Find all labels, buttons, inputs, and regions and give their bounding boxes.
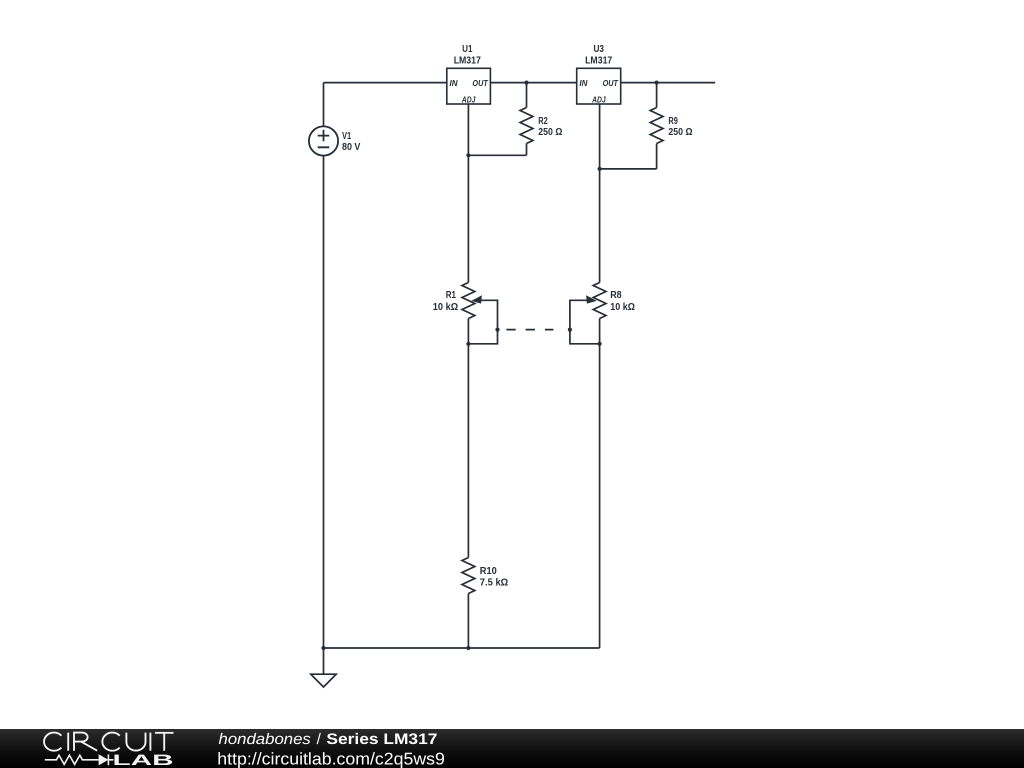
wire R10 bottom lead	[467, 594, 469, 649]
svg-text:IN: IN	[450, 78, 459, 88]
svg-text:IN: IN	[579, 78, 588, 88]
svg-text:R9: R9	[668, 116, 678, 127]
svg-text:250 Ω: 250 Ω	[668, 127, 692, 138]
ground	[311, 674, 336, 687]
svg-text:R10: R10	[480, 566, 498, 577]
svg-text:10 kΩ: 10 kΩ	[433, 302, 459, 313]
wire dashed gang link R1-R8	[506, 329, 553, 331]
footer title	[219, 731, 438, 748]
logo diode wire	[108, 754, 113, 765]
svg-text:hondabones: hondabones	[219, 731, 312, 748]
potentiometer R8	[570, 283, 606, 344]
svg-text:OUT: OUT	[603, 78, 619, 88]
wire R1 bottom to R10	[467, 319, 469, 558]
wire U1 OUT to U3 IN	[490, 82, 576, 84]
node R1 wiper link	[495, 328, 499, 332]
svg-text:LM317: LM317	[585, 55, 613, 66]
wire top from V1 to U1 IN	[324, 82, 447, 84]
wire U3 OUT to right end	[621, 82, 716, 84]
svg-text:250 Ω: 250 Ω	[538, 127, 562, 138]
logo diode	[99, 754, 109, 765]
svg-text:ADJ: ADJ	[591, 94, 606, 104]
op-amp U3 box	[577, 68, 621, 104]
svg-text:LM317: LM317	[454, 55, 482, 66]
footer bar	[0, 729, 1024, 768]
svg-text:http://circuitlab.com/c2q5ws9: http://circuitlab.com/c2q5ws9	[217, 749, 445, 768]
wire bottom ground rail	[324, 647, 600, 649]
potentiometer R1	[462, 283, 498, 344]
svg-text:U3: U3	[593, 44, 604, 55]
wire R2 bottom to ADJ node	[468, 154, 526, 156]
logo letter R	[74, 733, 97, 751]
node R10 / ground rail	[466, 646, 470, 650]
svg-text:U1: U1	[462, 44, 473, 55]
node R8 bottom	[598, 342, 602, 346]
logo letter C2	[102, 733, 119, 751]
logo letter I	[67, 733, 69, 751]
resistor R10	[462, 558, 475, 594]
wire R9 bottom to ADJ node	[600, 168, 657, 170]
svg-text:R8: R8	[610, 290, 622, 301]
logo letter I2	[149, 733, 151, 751]
svg-text:R2: R2	[538, 116, 548, 127]
resistor R2	[520, 83, 533, 156]
resistor R9	[650, 83, 663, 169]
svg-text:10 kΩ: 10 kΩ	[610, 302, 635, 313]
svg-text:LAB: LAB	[113, 752, 174, 768]
wire U1 ADJ down to R1	[467, 104, 469, 283]
node R8 wiper link	[568, 328, 572, 332]
svg-text:ADJ: ADJ	[461, 94, 476, 104]
logo letter T	[155, 733, 174, 751]
wire R8 bottom down	[599, 319, 601, 649]
wire V1 bottom lead	[323, 156, 325, 675]
svg-text:R1: R1	[446, 290, 457, 301]
node V1 / ground rail	[321, 646, 325, 650]
voltage source V1	[309, 126, 338, 155]
node U1.OUT / R2	[524, 81, 528, 85]
node U3.ADJ / R9	[598, 167, 602, 171]
svg-text:V1: V1	[342, 131, 352, 142]
node U1.ADJ / R2	[466, 153, 470, 157]
svg-text:/: /	[317, 731, 322, 748]
node U3.OUT / R9	[655, 81, 659, 85]
logo letter C	[44, 733, 61, 751]
svg-text:7.5 kΩ: 7.5 kΩ	[480, 578, 509, 589]
node R1 bottom	[466, 342, 470, 346]
wire V1 top lead	[323, 83, 325, 127]
logo resistor squiggle	[45, 755, 99, 764]
svg-text:80 V: 80 V	[342, 142, 361, 153]
op-amp U1 box	[447, 68, 491, 104]
svg-text:Series LM317: Series LM317	[326, 731, 437, 748]
wire U3 ADJ down to R8	[599, 104, 601, 283]
svg-text:OUT: OUT	[472, 78, 488, 88]
logo letter U	[126, 733, 145, 751]
